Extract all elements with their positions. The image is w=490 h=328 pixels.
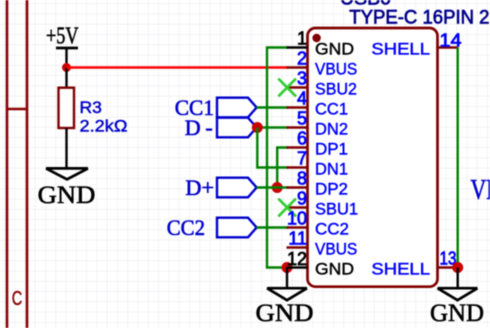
no-connect X pin 3 bbox=[278, 79, 296, 97]
svg-text:GND: GND bbox=[315, 260, 354, 279]
svg-text:VBUS: VBUS bbox=[315, 240, 357, 259]
pin 13 SHELL (bottom right) bbox=[371, 248, 458, 278]
svg-text:+5V: +5V bbox=[46, 24, 79, 50]
svg-text:GND: GND bbox=[315, 40, 354, 59]
resistor R3 2.2kOhm bbox=[59, 88, 128, 136]
net flag D+ bbox=[185, 175, 256, 200]
wire GND net: pin 1 to pin 12 bbox=[267, 48, 288, 268]
wire SHELL: pin 14 to pin 13 bbox=[457, 48, 459, 268]
junction node DP1/DP2 bbox=[272, 182, 283, 193]
svg-text:DN2: DN2 bbox=[315, 120, 348, 139]
pin 2 VBUS bbox=[287, 49, 358, 79]
pin 10 CC2 bbox=[287, 209, 350, 239]
junction node pin 13 SHELL bbox=[452, 262, 463, 273]
svg-text:GND: GND bbox=[38, 182, 96, 209]
wire DN2 to DN1: pin 5 to pin 7 bbox=[257, 128, 288, 168]
svg-text:2: 2 bbox=[297, 49, 307, 69]
svg-text:3: 3 bbox=[297, 69, 307, 89]
svg-text:TYPE-C 16PIN 2: TYPE-C 16PIN 2 bbox=[349, 7, 489, 28]
pin 3 SBU2 bbox=[287, 69, 358, 99]
net flag CC2 bbox=[167, 215, 257, 240]
svg-text:5: 5 bbox=[297, 109, 307, 129]
svg-text:9: 9 bbox=[297, 189, 307, 209]
ground (middle, pin 12) bbox=[256, 288, 314, 327]
junction node D-/DN2 bbox=[252, 122, 263, 133]
svg-text:6: 6 bbox=[297, 129, 307, 149]
wire pin 13 to ground bbox=[457, 268, 459, 289]
svg-text:2.2kΩ: 2.2kΩ bbox=[80, 117, 128, 136]
svg-text:D+: D+ bbox=[185, 175, 214, 200]
ground (right, SHELL) bbox=[430, 288, 484, 327]
no-connect X pin 9 bbox=[278, 199, 296, 217]
pin 12 GND bbox=[287, 249, 355, 279]
svg-text:R3: R3 bbox=[80, 98, 102, 117]
svg-text:CC2: CC2 bbox=[167, 215, 205, 240]
pin 1 GND bbox=[287, 29, 355, 59]
svg-text:DN1: DN1 bbox=[315, 160, 348, 179]
svg-text:C: C bbox=[12, 287, 23, 310]
svg-text:1: 1 bbox=[297, 29, 307, 49]
wire VBUS (red) node to pin 2 bbox=[67, 66, 289, 69]
net flag D- bbox=[185, 115, 257, 140]
wire R3 to ground bbox=[65, 128, 67, 168]
sheet border frame bbox=[7, 0, 27, 328]
svg-text:12: 12 bbox=[287, 249, 307, 269]
pin 9 SBU1 bbox=[287, 189, 359, 219]
svg-text:DP1: DP1 bbox=[315, 140, 348, 159]
svg-text:SBU1: SBU1 bbox=[315, 200, 358, 219]
svg-text:8: 8 bbox=[297, 169, 307, 189]
pin 6 DP1 bbox=[287, 129, 349, 159]
svg-text:GND: GND bbox=[430, 300, 484, 327]
svg-text:DP2: DP2 bbox=[315, 180, 348, 199]
power flag +5V bbox=[46, 24, 79, 50]
svg-text:10: 10 bbox=[287, 209, 307, 229]
pin 8 DP2 bbox=[287, 169, 349, 199]
junction node pin 12 GND bbox=[282, 262, 293, 273]
svg-text:D-: D- bbox=[185, 115, 213, 140]
svg-text:11: 11 bbox=[288, 229, 307, 249]
wire CC1 flag to pin 4 bbox=[257, 106, 288, 108]
wire D+ flag to pin 8 bbox=[257, 186, 288, 188]
svg-text:GND: GND bbox=[256, 300, 314, 327]
pin 7 DN1 bbox=[287, 149, 349, 179]
wire DP1 to DP2: pin 6 to pin 8 bbox=[277, 148, 288, 188]
svg-text:CC2: CC2 bbox=[315, 220, 349, 239]
ground (left) bbox=[38, 168, 96, 209]
junction node at +5V/VBUS bbox=[62, 63, 71, 72]
net flag CC1 bbox=[175, 95, 257, 120]
svg-text:7: 7 bbox=[297, 149, 307, 169]
connector USB0 TYPE-C body bbox=[308, 28, 438, 287]
svg-text:SHELL: SHELL bbox=[371, 260, 430, 279]
svg-text:CC1: CC1 bbox=[315, 100, 348, 119]
pin 4 CC1 bbox=[287, 89, 349, 119]
wire D- flag to pin 5 bbox=[257, 126, 288, 128]
wire +5V to node bbox=[65, 48, 67, 68]
pin 14 SHELL (top right) bbox=[371, 31, 461, 59]
svg-text:4: 4 bbox=[297, 89, 307, 109]
pin 11 VBUS bbox=[287, 229, 358, 259]
svg-text:SHELL: SHELL bbox=[371, 40, 430, 59]
wire node to R3 bbox=[65, 68, 67, 88]
svg-text:VBUS: VBUS bbox=[471, 175, 490, 206]
svg-text:VBUS: VBUS bbox=[315, 60, 357, 79]
pin 5 DN2 bbox=[287, 109, 349, 139]
wire pin 12 to ground bbox=[286, 268, 288, 289]
svg-text:SBU2: SBU2 bbox=[315, 80, 357, 99]
wire CC2 flag to pin 10 bbox=[257, 226, 288, 228]
pin 1 marker dot bbox=[312, 34, 320, 42]
